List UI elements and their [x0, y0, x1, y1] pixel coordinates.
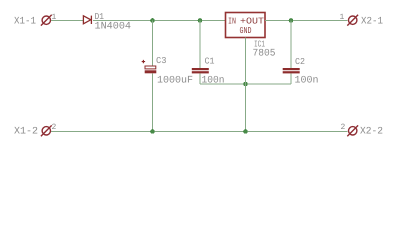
svg-text:C1: C1 [205, 57, 215, 67]
wire C3 top lead [152, 21, 154, 66]
svg-text:1N4004: 1N4004 [95, 22, 132, 33]
svg-text:1: 1 [340, 13, 345, 22]
svg-text:100n: 100n [295, 76, 319, 87]
svg-text:100n: 100n [202, 76, 225, 87]
wire C1 bottom lead [199, 73, 201, 84]
wire IC1 OUT to X2-1 [265, 20, 348, 22]
svg-text:X2-1: X2-1 [361, 17, 383, 28]
capacitor C3 (polarized) [142, 60, 157, 73]
svg-text:2: 2 [52, 123, 57, 132]
capacitor C2 [283, 68, 300, 73]
wire C1 bottom to C2 bottom [200, 83, 291, 85]
connector pin X1-2 [41, 125, 52, 136]
wire D1 cathode to IC1 IN [93, 20, 226, 22]
voltage regulator IC1 box [226, 13, 266, 38]
connector pin X2-2 [347, 125, 358, 136]
junction node C3 bottom [150, 129, 155, 134]
diode D1 [83, 16, 91, 24]
svg-text:1000uF: 1000uF [157, 76, 193, 87]
svg-text:2: 2 [341, 123, 346, 132]
junction node IC1 GND bottom [243, 129, 248, 134]
junction node GND lead crossing [243, 82, 248, 87]
wire C1 top lead [199, 21, 201, 69]
capacitor C1 [192, 68, 209, 73]
junction node at C1 top [198, 18, 203, 23]
svg-text:X2-2: X2-2 [360, 127, 383, 138]
svg-text:C3: C3 [156, 56, 167, 66]
wire C2 bottom lead [290, 73, 292, 84]
wire X1-1 to D1 anode [51, 20, 83, 22]
svg-text:7805: 7805 [253, 48, 276, 59]
junction node at C3 top [150, 18, 155, 23]
svg-text:IN: IN [228, 16, 236, 26]
connector pin X2-1 [347, 15, 358, 26]
svg-text:X1-2: X1-2 [14, 127, 38, 138]
svg-text:C2: C2 [295, 57, 305, 67]
svg-text:+OUT: +OUT [240, 16, 265, 26]
ground rail wire X1-2 to X2-2 [51, 131, 348, 133]
wire C3 bottom lead to ground rail [152, 73, 154, 131]
wire IC1 GND lead to ground rail [245, 38, 247, 132]
junction node at C2 top [289, 18, 294, 23]
connector pin X1-1 [41, 15, 52, 26]
wire C2 top lead [290, 21, 292, 69]
svg-text:GND: GND [240, 26, 252, 36]
svg-text:X1-1: X1-1 [14, 17, 36, 28]
